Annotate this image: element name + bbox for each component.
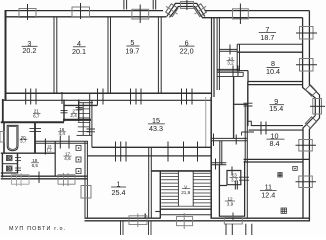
toilet 1 dot xyxy=(9,157,10,158)
toilet 2 xyxy=(6,166,12,171)
window W1 tick xyxy=(27,4,29,20)
door ticks bathroom xyxy=(30,129,42,132)
small square dot xyxy=(294,168,295,169)
bathtub inner xyxy=(8,127,16,150)
room7/8 divider upper line xyxy=(237,43,302,45)
room13 box xyxy=(227,171,241,185)
label room1 xyxy=(111,179,126,197)
right wall window room 11 xyxy=(299,176,313,188)
window W2 tick xyxy=(80,3,82,19)
room12 left wall xyxy=(218,165,220,217)
wall room3/4 divider xyxy=(54,17,57,94)
svg-text:МУП ПОВТИ г.о.: МУП ПОВТИ г.о. xyxy=(9,226,66,232)
wall rooms3-6 bottom upper line xyxy=(5,92,211,94)
stairV landing edge xyxy=(178,205,193,207)
bottom wall stair wing inner line xyxy=(160,214,211,216)
porch verticals under room1 xyxy=(121,222,152,236)
label room16 xyxy=(58,127,66,136)
svg-text:1,1: 1,1 xyxy=(47,148,52,152)
window W3 tick xyxy=(139,5,141,24)
step stairV ticks xyxy=(183,213,185,229)
door ticks room14 bottom xyxy=(233,66,238,77)
wall wc top xyxy=(1,152,55,154)
door ticks corridor15 left xyxy=(98,89,104,105)
step stairV bottom xyxy=(177,217,193,226)
porch right wall above top wall xyxy=(153,0,156,10)
corridor q4 wall x221 xyxy=(220,141,222,165)
door ticks corridor21 xyxy=(26,89,36,105)
top bay (trapezoid) outer outline xyxy=(167,3,205,16)
stair2 stringer xyxy=(82,103,84,136)
svg-text:20.2: 20.2 xyxy=(22,46,36,55)
room2 left wall xyxy=(63,100,65,122)
right exterior wall lower outer xyxy=(308,129,310,221)
right wall window room 11 tick xyxy=(296,181,317,183)
step under left wing 2 xyxy=(58,175,75,185)
svg-text:8.4: 8.4 xyxy=(270,139,280,148)
stairV stringers xyxy=(178,171,193,206)
svg-text:3,2: 3,2 xyxy=(227,60,234,65)
bay face window tick xyxy=(310,105,325,107)
toilet 1 xyxy=(6,156,12,161)
label room13 xyxy=(230,173,239,183)
bathroom block top wall xyxy=(1,121,64,123)
svg-text:12.4: 12.4 xyxy=(261,191,275,200)
door tick vestibule right xyxy=(235,135,237,145)
svg-text:4,6: 4,6 xyxy=(64,156,71,161)
top bay window top tick xyxy=(186,0,188,10)
step under left wing 2 tick xyxy=(64,173,69,186)
exit landing edge xyxy=(155,211,160,213)
top exterior wall right section inner line xyxy=(202,17,303,19)
room17/18 divider xyxy=(54,141,56,176)
top bay window right diagonal xyxy=(192,2,209,18)
top bay window left diagonal xyxy=(163,2,180,18)
label room20 xyxy=(20,135,28,144)
label room14 xyxy=(227,56,235,66)
top exterior wall left section, outer line xyxy=(5,10,164,12)
door leaf room10 xyxy=(242,132,255,136)
svg-text:4,4: 4,4 xyxy=(59,131,66,136)
window W3 room 5 xyxy=(132,9,149,19)
window W1 room 3 xyxy=(19,9,36,18)
stairV right flight treads xyxy=(193,173,210,206)
right wall window room 7 xyxy=(300,27,314,40)
door ticks stair vestibule xyxy=(168,142,198,162)
room1 right wall xyxy=(149,147,152,218)
svg-text:21,9: 21,9 xyxy=(181,190,190,195)
door tick y163 xyxy=(215,159,217,170)
svg-text:3,7: 3,7 xyxy=(231,178,238,183)
bathtub outer xyxy=(7,125,18,150)
window W2 room 4 xyxy=(72,7,90,17)
stair2 north edge xyxy=(80,102,94,104)
room10 top wall upper line xyxy=(251,125,303,127)
room7/8 divider lower line xyxy=(237,51,302,53)
room12 top wall xyxy=(219,185,227,187)
label room4 xyxy=(72,39,86,56)
door ticks room6 xyxy=(182,89,193,105)
right wall window room 10 tick xyxy=(296,144,317,146)
label room18 xyxy=(31,158,39,168)
left exterior wall corridor section xyxy=(2,99,4,122)
room11 left wall xyxy=(245,161,248,219)
svg-text:3,7: 3,7 xyxy=(20,138,27,143)
bay lower diagonal window bar xyxy=(305,117,316,128)
bay right inner face xyxy=(314,98,316,116)
left exterior wall bathroom section xyxy=(3,122,5,154)
room14 left wall xyxy=(217,18,219,90)
door ticks wc stall 2 xyxy=(15,168,21,170)
window W4 room 7 on top wall xyxy=(233,9,249,19)
label room6 xyxy=(179,39,195,56)
porch bottom verticals right wing xyxy=(226,224,252,235)
room1 left wall xyxy=(85,141,87,218)
bay right outer face xyxy=(319,95,321,119)
bay upper diagonal window bar xyxy=(305,85,316,96)
label room15 xyxy=(148,116,165,133)
step room1 bottom xyxy=(129,216,147,225)
room14 bottom wall xyxy=(217,69,240,71)
radiator dots xyxy=(78,147,79,172)
stair2 east edge xyxy=(96,100,98,105)
right wall window room 8 tick xyxy=(296,64,317,66)
right wall window room 10 xyxy=(299,140,313,152)
stairV bottom line xyxy=(160,208,211,210)
top bay inner outline xyxy=(170,7,203,18)
room14 top wall xyxy=(219,49,237,51)
step under left wing 1 tick xyxy=(17,173,22,186)
duct below room14 xyxy=(217,72,243,76)
bottom exterior wall main outer xyxy=(85,220,311,222)
label room11 xyxy=(260,183,277,200)
corner bracket room10 xyxy=(248,121,251,126)
wall y104 notch xyxy=(234,103,248,105)
toilet 1 bowl xyxy=(8,156,11,159)
stairV top wall xyxy=(152,170,212,172)
svg-text:22,0: 22,0 xyxy=(180,47,194,56)
step tick bottom wall xyxy=(144,214,146,219)
bay right outer upper diagonal xyxy=(309,85,319,96)
door tick room18 bottom xyxy=(38,172,40,184)
door ticks room2 right wall xyxy=(76,107,83,109)
wc bottom wall xyxy=(1,172,18,174)
door ticks room10 xyxy=(261,122,266,135)
label room17 xyxy=(64,151,72,161)
left exterior wall wc section xyxy=(1,153,3,178)
label room21 xyxy=(33,109,41,119)
step room12 bottom xyxy=(224,217,242,224)
stairV left flight treads xyxy=(161,173,178,206)
room10 top wall lower line xyxy=(249,129,303,131)
bottom exterior wall main inner xyxy=(85,217,311,219)
door jamb ticks room9 left wall xyxy=(244,103,253,106)
label room2 xyxy=(70,109,77,118)
notch vertical room8 xyxy=(247,71,249,82)
wall room5/6 divider xyxy=(158,17,161,94)
label stairV xyxy=(181,184,190,195)
svg-text:10.4: 10.4 xyxy=(266,67,280,76)
label room10 xyxy=(267,132,285,149)
bay face window xyxy=(313,99,322,115)
stair2 wall west xyxy=(89,93,91,135)
top exterior wall left section, inner line xyxy=(5,16,167,18)
wall room6/7 divider xyxy=(212,18,215,98)
top exterior wall right section outer line xyxy=(205,10,310,12)
bay right outer lower diagonal xyxy=(309,118,319,129)
label room19 xyxy=(47,145,52,153)
room10 left wall xyxy=(245,104,247,162)
stairV left wall xyxy=(159,171,161,219)
label room5 xyxy=(125,38,139,55)
svg-text:15.4: 15.4 xyxy=(269,104,283,113)
door tick room19 xyxy=(44,139,46,155)
bay right inner lower diagonal xyxy=(303,116,315,129)
door tick room13 top xyxy=(231,167,233,176)
room8 bottom wall upper line xyxy=(248,81,303,83)
label room7 xyxy=(259,25,276,42)
door ticks room16 xyxy=(60,136,69,149)
label room8 xyxy=(266,59,280,76)
room2 bottom wall segment xyxy=(63,119,91,121)
door ticks room13 right xyxy=(239,177,249,180)
room10/11 divider lower xyxy=(244,161,303,163)
room1 left wall window xyxy=(81,186,91,199)
svg-text:2,4: 2,4 xyxy=(70,113,77,118)
right exterior wall upper outer xyxy=(308,11,310,86)
room2 top wall xyxy=(64,104,98,106)
wall room16 bottom xyxy=(35,141,88,143)
notch wall room8 xyxy=(240,70,248,72)
window left wall xyxy=(0,132,5,143)
corridor15 bottom wall upper line xyxy=(92,146,211,148)
wc right wall xyxy=(17,153,19,173)
window W4 tick xyxy=(239,4,241,25)
porch left wall above top wall xyxy=(124,0,127,10)
door ticks room13 bottom xyxy=(235,181,237,190)
room9 left wall xyxy=(247,82,249,123)
door ticks stair2 wall xyxy=(87,129,96,132)
svg-text:6,5: 6,5 xyxy=(32,163,39,168)
toilet 2 dot xyxy=(9,168,10,169)
corridor15 bottom wall lower line xyxy=(87,155,211,157)
svg-text:6,7: 6,7 xyxy=(33,113,40,118)
door ticks corridor15 mid xyxy=(131,89,142,105)
stair2 treads xyxy=(78,109,90,131)
svg-text:3,9: 3,9 xyxy=(227,201,234,206)
label room12 xyxy=(225,196,235,206)
door ticks wc stall 1 xyxy=(15,158,21,161)
bathroom right wall xyxy=(34,122,36,153)
wall room4/5 divider xyxy=(108,17,111,94)
top bay window top face xyxy=(181,2,194,9)
svg-text:25.4: 25.4 xyxy=(112,188,126,197)
wall y163 q4 xyxy=(211,163,226,165)
right exterior wall upper inner xyxy=(302,18,304,88)
room12 bottom tick xyxy=(232,213,234,221)
bay right inner upper diagonal xyxy=(303,88,316,99)
door tick vestibule left xyxy=(213,134,215,147)
room12 right wall xyxy=(244,162,246,217)
svg-text:43.3: 43.3 xyxy=(149,124,163,133)
small square right wall room11 xyxy=(293,166,297,170)
corridor15 right wall main xyxy=(210,97,212,218)
door tick x62 xyxy=(61,92,63,104)
door tick room14 top xyxy=(229,45,231,55)
step under left wing 1 xyxy=(11,175,29,185)
vent square room11 bottom xyxy=(281,208,287,213)
label room3 xyxy=(22,39,38,55)
room14 right wall xyxy=(237,44,239,70)
room12 bottom line xyxy=(219,215,244,217)
vestibule top wall q4 xyxy=(211,138,247,140)
left exterior wall upper xyxy=(5,11,7,101)
svg-text:19.7: 19.7 xyxy=(125,47,139,56)
room8 bottom wall lower line xyxy=(248,84,303,86)
door ticks room1 xyxy=(116,142,127,162)
svg-text:18.7: 18.7 xyxy=(260,33,274,42)
bottom wall left wing outer xyxy=(1,178,87,180)
room10/11 divider upper xyxy=(244,158,310,160)
right exterior wall lower inner xyxy=(302,128,304,219)
corridor15 right wall faint inner xyxy=(205,97,207,147)
wall x233.6 vestibule xyxy=(233,76,235,138)
bottom wall left wing inner xyxy=(1,175,87,177)
wall rooms3-6 bottom lower line xyxy=(3,99,211,101)
right wall window room 8 xyxy=(300,59,314,72)
wc stall divider xyxy=(2,163,17,165)
radiator squares room17 xyxy=(76,145,81,173)
door ticks room2 left wall xyxy=(61,110,68,112)
corridor15 left wall xyxy=(91,100,93,147)
stair2 south edge xyxy=(77,134,93,136)
toilet 2 bowl xyxy=(8,167,11,170)
vent square room11 top xyxy=(278,173,282,177)
step room1 ticks xyxy=(137,214,139,228)
svg-text:20.1: 20.1 xyxy=(72,47,86,56)
label room9 xyxy=(269,97,284,113)
right wall window room 7 tick xyxy=(296,32,317,34)
room2 right wall xyxy=(78,100,80,122)
